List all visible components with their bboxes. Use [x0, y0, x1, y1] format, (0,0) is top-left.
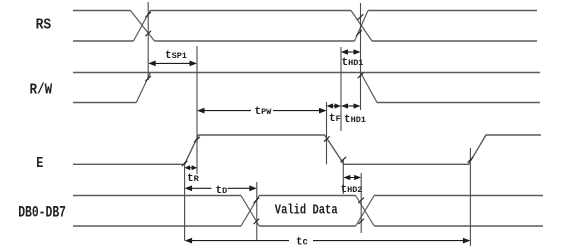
dimension tc — [185, 237, 471, 248]
svg-text:tSP1: tSP1 — [165, 50, 187, 62]
RS crossover left — [131, 11, 155, 42]
reference line V1 — [147, 2, 149, 80]
svg-text:R/W: R/W — [30, 82, 53, 98]
R/W waveform rails — [73, 73, 540, 103]
reference line V7 — [342, 159, 344, 194]
DB bus crossover left — [241, 196, 259, 227]
svg-text:RS: RS — [36, 17, 52, 33]
svg-text:Valid Data: Valid Data — [275, 203, 338, 219]
dimension tF — [327, 103, 342, 125]
reference line V4 — [326, 102, 328, 164]
reference line V3 — [256, 182, 258, 241]
svg-text:tC: tC — [296, 237, 308, 248]
dimension tHD1 bottom — [341, 103, 366, 126]
dimension tSP1 — [148, 50, 197, 66]
svg-text:tR: tR — [187, 173, 200, 185]
dimension tHD1 top — [341, 49, 363, 69]
signal label DB0-DB7 — [18, 205, 66, 222]
svg-text:tF: tF — [329, 113, 341, 125]
dimension tPW — [197, 106, 327, 118]
reference line V10 — [184, 162, 186, 241]
R/W rise transition — [136, 73, 150, 103]
svg-text:DB0-DB7: DB0-DB7 — [18, 205, 66, 222]
svg-text:tHD2: tHD2 — [341, 184, 363, 196]
reference line V5 — [340, 47, 342, 131]
signal label RS — [36, 17, 52, 33]
dimension tR — [185, 165, 200, 185]
reference line V2 — [196, 46, 198, 174]
svg-text:tPW: tPW — [255, 106, 273, 118]
reference line V8 — [360, 173, 362, 233]
reference line V6 — [360, 3, 362, 110]
dimension tHD2 — [341, 175, 363, 196]
DB bus crossover right — [356, 196, 375, 227]
svg-text:tD: tD — [216, 185, 228, 197]
svg-text:tHD1: tHD1 — [344, 114, 366, 126]
tick marks — [145, 12, 473, 224]
valid data label — [275, 203, 338, 219]
reference line V9 — [469, 148, 471, 246]
signal label R/W — [30, 82, 53, 98]
svg-text:tHD1: tHD1 — [342, 57, 364, 69]
RS waveform rails — [73, 11, 537, 42]
E waveform — [73, 135, 541, 164]
dimension tD — [185, 185, 257, 197]
R/W fall transition — [361, 73, 378, 103]
signal label E — [36, 156, 43, 172]
DB0-DB7 bus rails — [73, 196, 543, 227]
RS crossover right — [351, 11, 372, 42]
svg-text:E: E — [36, 156, 43, 172]
